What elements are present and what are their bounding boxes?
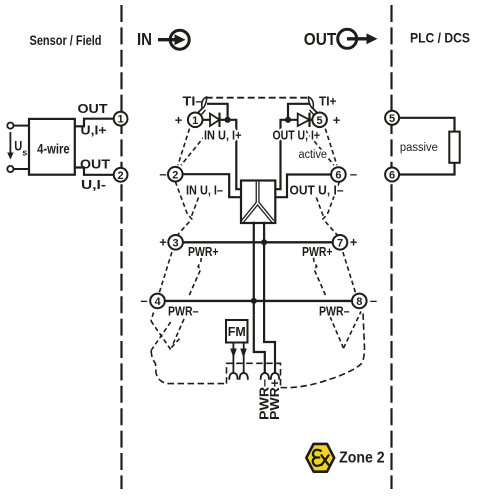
dashed motif terminals 1-2 left	[178, 129, 190, 166]
svg-text:3: 3	[173, 238, 179, 250]
isolation barrier symbol	[243, 182, 273, 222]
wire 4-wire OUT- to terminal 2	[74, 168, 114, 175]
diode D1 input	[210, 113, 220, 127]
svg-text:Sensor / Field: Sensor / Field	[30, 32, 102, 48]
module terminal 5	[312, 113, 327, 128]
svg-text:OUT U, I+: OUT U, I+	[273, 129, 321, 143]
wire TI- branch	[207, 104, 228, 120]
svg-text:6: 6	[389, 170, 395, 182]
module terminal 7	[333, 235, 348, 250]
dashed envelope bottom right curve	[281, 312, 365, 388]
junction PWR-	[251, 298, 257, 304]
wire output module to terminal 5	[275, 120, 298, 189]
FM box	[226, 320, 248, 343]
svg-text:active: active	[299, 149, 328, 161]
PWR+ rail	[183, 241, 333, 243]
svg-text:TI–: TI–	[183, 94, 204, 109]
svg-text:4: 4	[154, 296, 161, 308]
TI dashed test line	[206, 97, 310, 99]
wire power feed PWR+	[264, 222, 275, 374]
wire diode to terminal 5	[310, 119, 313, 121]
svg-text:passive: passive	[400, 142, 438, 154]
svg-text:–: –	[140, 293, 147, 308]
isolator module box	[241, 181, 275, 224]
module terminal 2	[168, 167, 183, 182]
wire input terminal 1 to module	[203, 120, 242, 189]
svg-text:OUT: OUT	[80, 158, 110, 172]
OUT header symbol	[304, 29, 378, 49]
test disconnect hook at terminal 5	[308, 97, 317, 115]
svg-text:5: 5	[389, 113, 395, 125]
PLC terminal 5	[385, 111, 399, 125]
wire 4-wire OUT+ to terminal 1	[74, 119, 114, 127]
dashed motif terminals 3-4 left	[159, 252, 172, 293]
svg-text:2: 2	[118, 170, 124, 182]
svg-text:OUT U, I–: OUT U, I–	[290, 183, 344, 197]
field terminal 1	[114, 112, 128, 126]
PLC load resistor	[449, 132, 459, 163]
dashed motif terminals 7-8 right	[343, 252, 356, 293]
module terminal 3	[168, 235, 183, 250]
field terminal 2	[114, 168, 128, 182]
svg-text:7: 7	[337, 238, 343, 250]
dashed motif terminals 2-3 left	[175, 182, 192, 235]
svg-text:1: 1	[118, 114, 124, 126]
wire supply top	[14, 125, 30, 127]
FM wire left with arrow	[230, 343, 237, 374]
svg-text:+: +	[333, 112, 341, 127]
svg-text:IN U, I+: IN U, I+	[204, 129, 242, 143]
svg-text:OUT: OUT	[78, 102, 108, 116]
dashed envelope around plug connectors	[227, 363, 281, 386]
svg-text:+: +	[159, 235, 167, 250]
svg-text:Zone 2: Zone 2	[339, 450, 385, 467]
junction PWR+	[261, 239, 267, 245]
svg-text:IN: IN	[137, 29, 152, 49]
svg-text:FM: FM	[228, 325, 246, 339]
svg-text:6: 6	[335, 170, 341, 182]
junction input	[225, 117, 231, 123]
dashed motif terminals 5-6 right	[325, 129, 337, 166]
plug socket PWR+	[271, 373, 279, 380]
4-wire sensor: lower supply terminal	[7, 166, 13, 172]
plug socket PWR-	[261, 373, 269, 380]
IN header symbol	[137, 29, 189, 49]
svg-text:TI+: TI+	[319, 94, 337, 109]
diode D2 output	[298, 113, 310, 127]
svg-text:PLC / DCS: PLC / DCS	[410, 30, 470, 46]
dashed motif below terminal 4	[151, 313, 154, 322]
right zone boundary dashed line	[390, 5, 392, 489]
svg-text:1: 1	[192, 115, 198, 127]
dashed motif terminals 6-7 right	[323, 182, 340, 235]
svg-text:s: s	[22, 148, 27, 158]
svg-text:+: +	[175, 112, 183, 127]
module terminal 1	[188, 113, 203, 128]
svg-text:PWR–: PWR–	[168, 305, 199, 319]
PWR- rail	[165, 300, 352, 302]
test disconnect hook at terminal 1	[198, 97, 207, 115]
svg-text:U,I+: U,I+	[81, 124, 107, 138]
module terminal 6	[331, 167, 346, 182]
wire output module to terminal 6	[275, 175, 331, 198]
plug socket FM right	[240, 373, 248, 380]
wire PLC loop	[399, 118, 454, 175]
plug socket FM left	[229, 373, 237, 380]
svg-text:+: +	[350, 235, 358, 250]
left zone boundary dashed line	[120, 5, 122, 489]
svg-text:2: 2	[172, 169, 178, 181]
svg-text:PWR+: PWR+	[188, 245, 219, 259]
svg-text:PWR+: PWR+	[268, 379, 282, 420]
dashed motif below terminal 8	[330, 317, 344, 349]
wire power feed PWR-	[254, 222, 265, 374]
PLC terminal 6	[385, 168, 399, 182]
wire TI+ branch	[288, 104, 310, 120]
svg-text:IN U, I–: IN U, I–	[186, 183, 223, 197]
svg-text:OUT: OUT	[304, 29, 337, 49]
module terminal 8	[352, 294, 367, 309]
svg-text:U: U	[14, 139, 22, 154]
svg-text:–: –	[350, 167, 357, 182]
svg-text:5: 5	[317, 115, 323, 127]
svg-text:4-wire: 4-wire	[37, 141, 70, 157]
wire input terminal 2 to module	[183, 174, 241, 197]
supply voltage arrow Us	[7, 132, 27, 160]
dashed envelope bottom left	[151, 351, 225, 384]
wire supply bottom	[14, 168, 30, 170]
4-wire sensor: upper supply terminal	[7, 123, 13, 129]
svg-text:PWR–: PWR–	[319, 305, 350, 319]
module terminal 4	[150, 294, 165, 309]
Ex hexagon badge	[306, 444, 334, 472]
FM wire right with arrow	[240, 343, 247, 374]
svg-text:–: –	[159, 166, 166, 181]
svg-text:U,I-: U,I-	[81, 178, 106, 192]
4-wire transmitter box	[29, 119, 75, 175]
junction output	[285, 117, 291, 123]
svg-text:PWR+: PWR+	[302, 245, 333, 259]
svg-text:8: 8	[356, 296, 362, 308]
svg-text:–: –	[370, 293, 377, 308]
